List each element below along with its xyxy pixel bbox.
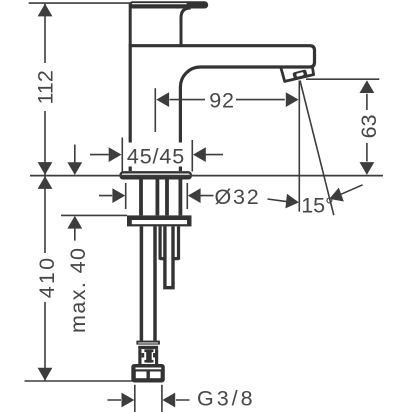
white box behind 45/45 text xyxy=(125,143,188,167)
112 bottom arrow xyxy=(38,162,53,175)
diameter 32 dimension tails xyxy=(99,195,214,197)
svg-text:410: 410 xyxy=(35,256,59,298)
45/45 right arrow xyxy=(193,147,206,162)
410 dimension line xyxy=(44,176,46,382)
45/45 dimension tails xyxy=(90,154,223,156)
top extension line xyxy=(29,2,130,4)
max40 top arrow xyxy=(67,162,82,175)
63 extension line xyxy=(306,78,379,80)
92 dimension line xyxy=(170,99,285,101)
mounting nut xyxy=(127,215,192,226)
G3/8 connector ring 1 xyxy=(136,341,160,345)
aerator rim at spout outlet xyxy=(281,67,314,82)
G3/8 left arrow xyxy=(122,393,135,408)
92 extension line (axis) xyxy=(154,88,156,132)
svg-text:Ø32: Ø32 xyxy=(215,185,261,209)
faucet body and spout outline xyxy=(129,46,315,171)
diameter 32 left arrow xyxy=(112,188,125,203)
92 left arrow xyxy=(156,92,169,107)
63 bottom arrow xyxy=(360,162,375,175)
63 top arrow xyxy=(360,80,375,93)
surface extension line xyxy=(30,175,383,177)
max40 dimension line upper xyxy=(74,145,76,164)
max40 bottom arrow xyxy=(67,216,82,229)
svg-text:112: 112 xyxy=(34,70,58,104)
92 right arrow xyxy=(286,92,299,107)
15 degree left arrow xyxy=(285,194,299,210)
15 degree right arrow xyxy=(327,188,344,206)
shank lines between plate and nut xyxy=(141,179,180,215)
G3/8 right arrow xyxy=(162,393,175,408)
faucet handle lever bar xyxy=(129,1,208,8)
G3/8 dimension tails xyxy=(108,399,190,401)
svg-text:92: 92 xyxy=(209,89,235,113)
svg-text:15°: 15° xyxy=(301,194,334,218)
nut top extension line xyxy=(61,214,127,216)
G3/8 connector spool xyxy=(146,349,152,362)
G3/8 end fitting xyxy=(131,364,165,383)
inner rod tube right xyxy=(165,226,173,287)
escutcheon base plate xyxy=(121,172,191,178)
diameter 32 right arrow xyxy=(188,188,201,203)
410 top arrow xyxy=(38,176,53,189)
15 degree right arrow tail xyxy=(341,185,363,195)
G3/8 connector window section walls xyxy=(140,349,157,364)
faucet handle stem xyxy=(130,3,191,46)
112 dimension line xyxy=(44,4,46,176)
45/45 extension lines xyxy=(122,138,192,173)
aerator nozzle xyxy=(292,69,307,79)
diameter 32 extension lines xyxy=(126,183,188,209)
outer guide tube right xyxy=(160,226,178,259)
max40 dimension line lower xyxy=(74,228,76,241)
112 top arrow xyxy=(38,4,53,17)
410 bottom arrow xyxy=(38,368,53,381)
63 dimension line xyxy=(366,94,368,162)
svg-text:G3/8: G3/8 xyxy=(197,387,256,411)
svg-text:45/45: 45/45 xyxy=(127,144,185,168)
supply tube below nut xyxy=(141,226,155,340)
bottom extension line xyxy=(25,380,133,382)
svg-text:63: 63 xyxy=(357,114,381,138)
45/45 left arrow xyxy=(109,147,122,162)
G3/8 connector ring 2 xyxy=(138,346,158,349)
15 degree vertical reference line xyxy=(298,81,300,212)
15 degree left arrow tail xyxy=(268,199,287,202)
G3/8 extension lines xyxy=(135,385,162,412)
svg-text:max. 40: max. 40 xyxy=(66,247,90,333)
15 degree slant line xyxy=(300,81,334,216)
